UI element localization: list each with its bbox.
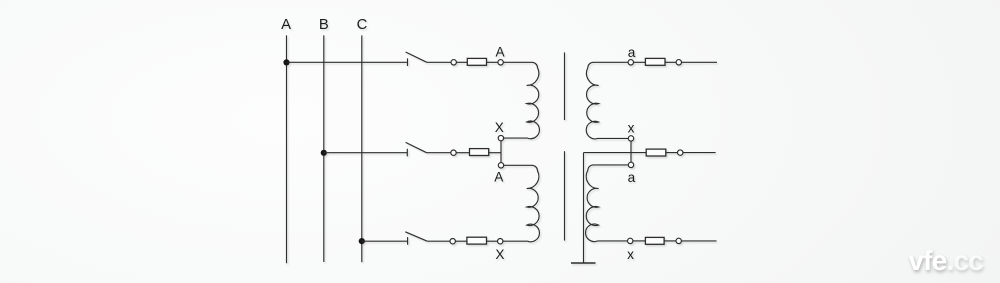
- terminal A primary winding 2: [498, 163, 503, 168]
- wire row3 bus to switch: [362, 240, 408, 242]
- terminal X primary winding 1: [498, 135, 503, 140]
- wire srow1 fuse to terminal: [665, 61, 676, 63]
- terminal circle srow1 right: [676, 60, 681, 65]
- watermark vfe.cc: [908, 245, 983, 277]
- svg-text:X: X: [495, 120, 504, 135]
- terminal A primary winding 1: [498, 60, 503, 65]
- secondary winding 2 coil: [586, 165, 629, 242]
- svg-text:A: A: [494, 169, 504, 184]
- bus A line: [286, 35, 288, 263]
- wire row1 terminal to fuse: [456, 61, 467, 63]
- svg-text:x: x: [628, 120, 635, 135]
- fuse FU1 primary phase A: [467, 58, 486, 65]
- wire srow2 fuse to terminal: [666, 152, 678, 154]
- wire srow2 ground branch to fuse: [584, 152, 647, 154]
- terminal a secondary winding 2: [628, 162, 633, 167]
- fuse FU4 secondary winding 1: [645, 58, 665, 65]
- svg-text:A: A: [281, 17, 291, 33]
- fuse FU6 secondary winding 2: [645, 237, 664, 244]
- switch S3: [405, 232, 427, 245]
- wire row2 switch to terminal: [427, 152, 451, 154]
- wire row3 terminal to fuse: [455, 240, 467, 242]
- fuse FU3 primary phase C: [467, 237, 487, 244]
- ground wire vertical: [583, 153, 585, 263]
- terminal X primary winding 2: [498, 239, 503, 244]
- terminal circle srow2 right: [678, 150, 683, 155]
- ground symbol: [571, 262, 596, 264]
- terminal circle row1 left: [451, 60, 456, 65]
- fuse FU2 primary phase B: [470, 149, 489, 156]
- bus B line: [323, 35, 325, 262]
- svg-text:x: x: [627, 247, 634, 262]
- svg-text:X: X: [495, 247, 504, 262]
- terminal x secondary winding 1: [628, 136, 633, 141]
- svg-text:a: a: [628, 170, 636, 185]
- secondary x1-a2 junction wire: [630, 141, 632, 163]
- core of transformer T2: [564, 151, 566, 240]
- wire row1 bus to switch: [287, 61, 408, 63]
- junction dot on bus B: [321, 150, 327, 156]
- primary X1-A2 junction wire: [500, 141, 502, 163]
- output wire srow1: [681, 61, 717, 63]
- terminal circle srow3 right: [676, 238, 681, 243]
- wire srow3 fuse to terminal: [664, 240, 676, 242]
- terminal x secondary winding 2: [628, 238, 633, 243]
- wire row2 bus to switch: [324, 152, 408, 154]
- svg-text:a: a: [628, 45, 636, 60]
- core of transformer T1: [564, 52, 566, 120]
- wire row1 switch to terminal: [427, 61, 451, 63]
- switch S1: [406, 52, 427, 66]
- output wire srow2: [683, 152, 716, 154]
- wire row2 fuse to junction: [489, 152, 501, 154]
- junction dot on bus A: [283, 59, 289, 65]
- bus C line: [361, 35, 363, 262]
- terminal circle row3 left: [450, 239, 455, 244]
- wire srow1 terminal to fuse: [633, 61, 645, 63]
- wire row3 switch to terminal: [427, 240, 450, 242]
- output wire srow3: [681, 240, 716, 242]
- primary winding 1 coil: [503, 62, 539, 138]
- switch S2: [406, 142, 427, 156]
- fuse FU5 secondary common: [646, 149, 666, 156]
- junction dot on bus C: [359, 238, 365, 244]
- svg-text:A: A: [495, 44, 505, 59]
- terminal a secondary winding 1: [628, 60, 633, 65]
- svg-text:C: C: [357, 17, 368, 33]
- wire srow3 terminal to fuse: [633, 240, 646, 242]
- terminal circle row2 left: [451, 150, 456, 155]
- wire row2 terminal to fuse: [456, 152, 470, 154]
- primary winding 2 coil: [503, 165, 540, 241]
- wire row1 fuse to terminal A: [487, 61, 499, 63]
- svg-text:B: B: [319, 17, 329, 33]
- secondary winding 1 coil: [586, 62, 628, 139]
- wire row3 fuse to terminal X: [487, 240, 498, 242]
